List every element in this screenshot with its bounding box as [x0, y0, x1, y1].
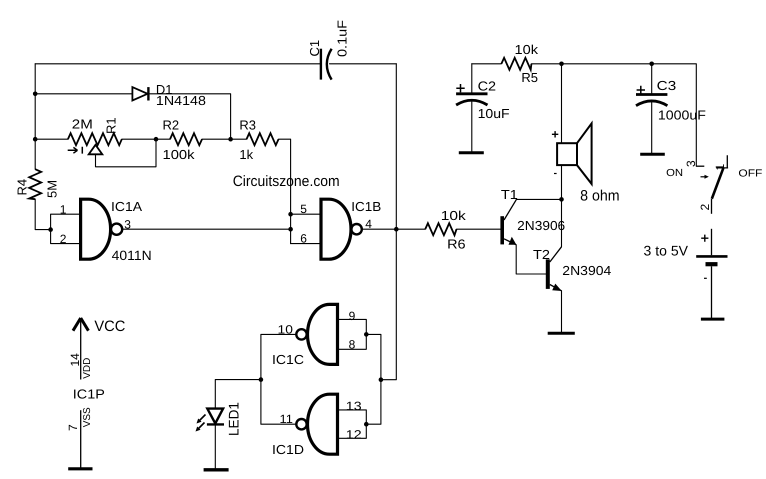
wire IC1C input join — [338, 319, 367, 349]
svg-text:ON: ON — [666, 168, 683, 179]
svg-text:VCC: VCC — [94, 318, 125, 335]
node H (pin4 / R6) — [394, 227, 399, 232]
svg-text:C3: C3 — [657, 78, 677, 93]
svg-text:11: 11 — [280, 412, 294, 426]
wire diode row — [35, 94, 230, 139]
svg-text:1: 1 — [60, 203, 67, 217]
potentiometer R1 adjust arrow — [68, 147, 83, 154]
switch pin 2 stub — [711, 199, 713, 214]
IC1P VDD pin line — [80, 319, 82, 380]
battery minus — [704, 277, 707, 279]
wire C3 bottom — [651, 101, 653, 155]
svg-text:C2: C2 — [478, 78, 497, 93]
switch pin 3 contact — [696, 165, 704, 167]
nand gate IC1A — [81, 199, 111, 259]
wire pot row — [35, 138, 156, 140]
resistor R4 5M (vertical) — [29, 169, 41, 199]
svg-text:10k: 10k — [515, 42, 539, 57]
T2 emitter arrow (NPN, points out) — [552, 284, 562, 291]
wire speaker bottom — [561, 165, 563, 199]
node A (left rail / diode) — [33, 92, 38, 97]
svg-text:R6: R6 — [447, 236, 466, 251]
svg-text:3: 3 — [124, 217, 131, 231]
wire top rail right — [472, 64, 697, 166]
svg-text:12: 12 — [346, 428, 362, 442]
wire IC1B pin6 — [291, 243, 321, 245]
wire R3 row — [231, 139, 291, 243]
resistor R2 100k — [170, 133, 202, 145]
transistor T2 collector — [550, 247, 562, 262]
svg-text:10uF: 10uF — [478, 106, 510, 121]
nand gate IC1C (mirrored) — [308, 304, 338, 364]
resistor R5 10k — [501, 58, 531, 70]
svg-text:IC1A: IC1A — [111, 199, 142, 214]
svg-text:VSS: VSS — [82, 407, 93, 427]
svg-text:VDD: VDD — [82, 358, 93, 379]
wire IC1C/IC1D outputs — [261, 334, 296, 424]
node J (C3 tap) — [649, 62, 654, 67]
wire speaker top — [561, 64, 563, 143]
svg-text:1000uF: 1000uF — [658, 107, 706, 122]
IC1D output bubble — [296, 419, 306, 429]
svg-text:2: 2 — [60, 232, 67, 246]
svg-text:R3: R3 — [239, 118, 256, 133]
nand gate IC1D (mirrored) — [308, 394, 338, 454]
svg-text:IC1B: IC1B — [351, 199, 381, 214]
wire C3 top — [651, 64, 653, 95]
IC1B output bubble — [351, 224, 361, 234]
svg-text:3 to 5V: 3 to 5V — [644, 242, 689, 258]
svg-text:10: 10 — [278, 323, 294, 337]
svg-text:6: 6 — [300, 231, 307, 245]
ground under battery — [701, 318, 725, 321]
wire main vertical — [381, 64, 396, 380]
svg-text:0.1uF: 0.1uF — [335, 20, 350, 57]
wire LED bottom — [214, 424, 216, 469]
svg-text:1N4148: 1N4148 — [156, 93, 206, 108]
node L (LED junction) — [259, 377, 264, 382]
svg-text:5: 5 — [300, 202, 307, 216]
svg-text:3: 3 — [684, 160, 698, 167]
svg-text:Circuitszone.com: Circuitszone.com — [233, 173, 340, 190]
svg-text:9: 9 — [349, 309, 356, 323]
wire IC1A inputs — [51, 214, 81, 243]
battery 3 to 5V — [696, 229, 727, 319]
svg-text:R1: R1 — [104, 117, 119, 134]
switch actuate arrow — [701, 176, 706, 178]
svg-text:R2: R2 — [163, 118, 180, 133]
resistor R3 1k — [247, 133, 279, 145]
transistor T2 emitter — [550, 285, 562, 291]
svg-text:IC1D: IC1D — [272, 442, 304, 457]
svg-text:8: 8 — [349, 338, 356, 352]
svg-text:4: 4 — [365, 217, 372, 231]
svg-text:OFF: OFF — [738, 169, 762, 180]
wire T2 emitter down — [561, 291, 563, 334]
svg-text:2N3906: 2N3906 — [517, 218, 565, 233]
svg-text:1: 1 — [713, 164, 727, 171]
svg-text:T2: T2 — [533, 247, 550, 262]
node M (IC1C input join) — [364, 332, 369, 337]
wire C2 top — [471, 64, 473, 94]
wire T2 collector up — [561, 199, 563, 246]
diode D1 1N4148 — [132, 87, 148, 100]
wire wiper loop — [96, 139, 157, 167]
ground under C2 — [459, 151, 484, 154]
wire left vertical — [35, 64, 50, 230]
transistor T1 emitter — [504, 239, 516, 245]
wire T1 collector to speaker node — [516, 198, 561, 200]
wire C2 bottom — [471, 100, 473, 153]
node O (IC1D input join) — [364, 422, 369, 427]
svg-text:8 ohm: 8 ohm — [580, 188, 620, 205]
capacitor C3 1000uF — [636, 95, 667, 106]
transistor T1 collector — [504, 200, 516, 220]
svg-text:2M: 2M — [72, 117, 93, 132]
VCC arrow — [73, 318, 88, 331]
svg-text:IC1C: IC1C — [272, 352, 304, 367]
LED1 cathode bar — [207, 423, 224, 425]
node B (left rail / pot row) — [33, 137, 38, 142]
node D (R2 / R3 / D1) — [228, 137, 233, 142]
svg-text:LED1: LED1 — [226, 402, 242, 436]
resistor R6 10k — [425, 223, 456, 235]
transistor T2 2N3904 base bar — [546, 259, 550, 289]
C3 plus sign — [637, 86, 645, 94]
C2 plus sign — [456, 84, 464, 92]
svg-text:R4: R4 — [15, 179, 30, 196]
node E (IC1A inputs) — [48, 227, 53, 232]
wire T1 emitter to T2 base — [516, 245, 546, 274]
wire link to IC1C/IC1D inputs — [366, 334, 381, 424]
svg-text:2: 2 — [698, 204, 712, 211]
battery plus — [701, 235, 708, 242]
node K (T1 collector / speaker) — [559, 197, 564, 202]
svg-text:C1: C1 — [307, 40, 322, 57]
svg-text:7: 7 — [66, 424, 80, 431]
wire IC1B pin5 — [291, 213, 321, 215]
switch pin 1 contact — [717, 155, 728, 168]
svg-text:14: 14 — [68, 353, 82, 367]
capacitor C2 10uF — [456, 94, 487, 105]
wire IC1D input join — [338, 410, 367, 438]
switch lever — [712, 168, 724, 199]
node N (main vertical / CD link) — [379, 377, 384, 382]
wire IC1B output — [362, 228, 397, 230]
wire top rail left — [35, 63, 396, 65]
node C (pot out / R2) — [154, 137, 159, 142]
speaker minus — [554, 173, 557, 175]
node I (R5 / speaker top) — [559, 62, 564, 67]
wire R2 row — [156, 138, 231, 140]
svg-text:5M: 5M — [45, 180, 60, 198]
T1 emitter arrow (PNP, points to base) — [509, 237, 517, 245]
svg-text:1k: 1k — [239, 147, 253, 162]
speaker plus — [552, 131, 558, 137]
wire R6 row — [396, 228, 500, 230]
svg-text:IC1P: IC1P — [73, 387, 105, 402]
IC1C output bubble — [296, 329, 306, 339]
ground under C3 — [640, 153, 665, 156]
ground under T2 — [548, 332, 575, 335]
capacitor C1 0.1uF — [321, 49, 332, 80]
svg-text:4011N: 4011N — [112, 248, 152, 263]
potentiometer R1 2M zigzag — [68, 133, 122, 145]
wire IC1A output — [122, 228, 291, 230]
speaker box — [557, 143, 577, 165]
svg-text:13: 13 — [346, 399, 362, 413]
wire LED link — [215, 380, 261, 409]
nand gate IC1B — [321, 199, 351, 259]
IC1P VSS pin line — [80, 410, 82, 467]
ground under IC1P — [68, 467, 92, 470]
svg-text:100k: 100k — [163, 147, 196, 162]
potentiometer R1 wiper triangle — [89, 145, 103, 155]
svg-text:T1: T1 — [501, 187, 518, 202]
svg-text:10k: 10k — [441, 208, 467, 223]
transistor T1 2N3906 base bar — [500, 216, 504, 244]
ground under LED1 — [204, 468, 229, 471]
LED1 triangle — [207, 409, 223, 424]
LED1 light arrows — [196, 415, 206, 432]
svg-text:2N3904: 2N3904 — [562, 263, 611, 278]
node F (pin5 tap) — [288, 212, 293, 217]
IC1A output bubble — [111, 224, 122, 235]
node G (IC1A out join) — [288, 227, 293, 232]
speaker cone — [577, 123, 592, 183]
svg-text:R5: R5 — [521, 70, 538, 85]
